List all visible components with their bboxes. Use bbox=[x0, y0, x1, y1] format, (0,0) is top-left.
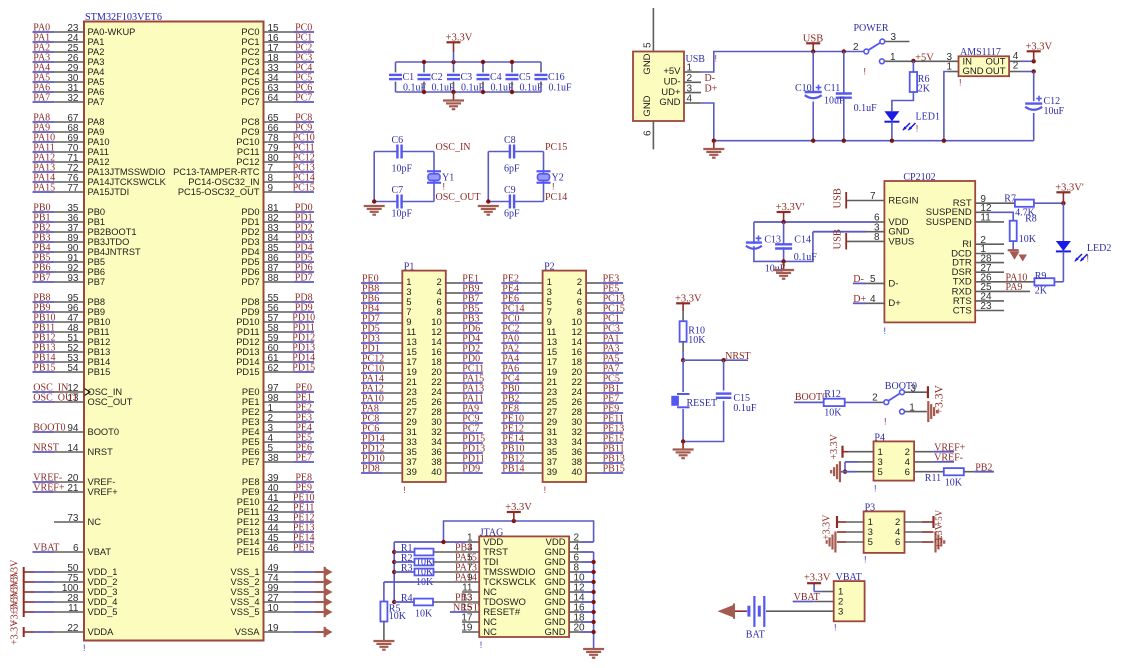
svg-text:!: ! bbox=[916, 124, 919, 134]
svg-text:BOOT0: BOOT0 bbox=[33, 423, 65, 434]
svg-text:STM32F103VET6: STM32F103VET6 bbox=[85, 12, 162, 23]
svg-text:VDD_2: VDD_2 bbox=[88, 577, 118, 587]
svg-text:PB6: PB6 bbox=[88, 267, 106, 277]
svg-text:PE1: PE1 bbox=[242, 397, 260, 407]
svg-text:PC15-OSC32_OUT: PC15-OSC32_OUT bbox=[178, 187, 260, 197]
svg-text:PC2: PC2 bbox=[241, 47, 259, 57]
svg-text:PB2BOOT1: PB2BOOT1 bbox=[88, 227, 137, 237]
svg-text:OUT: OUT bbox=[985, 66, 1005, 77]
svg-text:VBAT: VBAT bbox=[33, 543, 59, 554]
svg-text:0.1uF: 0.1uF bbox=[794, 252, 818, 263]
svg-text:+3.3V: +3.3V bbox=[822, 514, 833, 540]
svg-text:VSS_2: VSS_2 bbox=[231, 577, 260, 587]
svg-text:PD12: PD12 bbox=[236, 337, 259, 347]
svg-text:PA1: PA1 bbox=[88, 37, 105, 47]
svg-text:+3.3V: +3.3V bbox=[934, 522, 945, 548]
svg-text:PC1: PC1 bbox=[241, 37, 259, 47]
svg-text:+3.3V: +3.3V bbox=[829, 433, 840, 459]
svg-text:PA15JTDI: PA15JTDI bbox=[88, 187, 130, 197]
svg-text:SUSPEND: SUSPEND bbox=[926, 217, 972, 228]
svg-text:PB2: PB2 bbox=[975, 462, 992, 473]
svg-text:VDD_3: VDD_3 bbox=[88, 587, 118, 597]
svg-text:PD7: PD7 bbox=[241, 277, 259, 287]
svg-text:NC: NC bbox=[88, 517, 102, 527]
svg-text:6pF: 6pF bbox=[504, 163, 520, 174]
svg-text:PA12: PA12 bbox=[88, 157, 110, 167]
svg-text:PC12: PC12 bbox=[236, 157, 259, 167]
svg-text:!: ! bbox=[884, 417, 887, 427]
svg-text:PD9: PD9 bbox=[241, 307, 259, 317]
svg-text:!: ! bbox=[1087, 254, 1090, 264]
svg-text:PC4: PC4 bbox=[241, 67, 259, 77]
svg-text:+3.3V: +3.3V bbox=[934, 385, 946, 415]
svg-text:VSS_3: VSS_3 bbox=[231, 587, 260, 597]
svg-text:PD8: PD8 bbox=[241, 297, 259, 307]
svg-text:PA2: PA2 bbox=[88, 47, 105, 57]
svg-text:PE15: PE15 bbox=[237, 547, 260, 557]
svg-text:10K: 10K bbox=[415, 609, 433, 620]
svg-text:POWER: POWER bbox=[854, 23, 889, 34]
svg-text:VBAT: VBAT bbox=[836, 572, 862, 583]
svg-text:PA7: PA7 bbox=[33, 93, 50, 104]
svg-text:LED1: LED1 bbox=[916, 112, 940, 123]
svg-text:C9: C9 bbox=[504, 185, 516, 196]
svg-text:D+: D+ bbox=[853, 294, 866, 305]
svg-text:PC10: PC10 bbox=[236, 137, 259, 147]
svg-text:USB: USB bbox=[833, 188, 844, 208]
svg-text:PA9: PA9 bbox=[88, 127, 105, 137]
svg-text:VDD_5: VDD_5 bbox=[88, 607, 118, 617]
svg-text:PD5: PD5 bbox=[241, 257, 259, 267]
svg-text:PC6: PC6 bbox=[241, 87, 259, 97]
svg-text:PC14: PC14 bbox=[545, 192, 567, 203]
svg-text:PC13-TAMPER-RTC: PC13-TAMPER-RTC bbox=[173, 167, 260, 177]
svg-text:VDD_4: VDD_4 bbox=[88, 597, 118, 607]
svg-text:!: ! bbox=[874, 484, 877, 494]
svg-text:3: 3 bbox=[838, 606, 843, 617]
svg-text:10K: 10K bbox=[389, 611, 407, 622]
svg-text:40: 40 bbox=[572, 467, 583, 478]
svg-text:PB3JTDO: PB3JTDO bbox=[88, 237, 130, 247]
svg-text:PB12: PB12 bbox=[88, 337, 111, 347]
svg-text:!: ! bbox=[715, 54, 718, 64]
svg-text:!: ! bbox=[834, 623, 837, 633]
svg-text:PE12: PE12 bbox=[237, 517, 260, 527]
svg-text:PA11: PA11 bbox=[88, 147, 109, 157]
svg-text:10pF: 10pF bbox=[392, 163, 413, 174]
svg-text:!: ! bbox=[544, 485, 547, 495]
svg-text:!: ! bbox=[83, 643, 86, 653]
svg-text:VREF+: VREF+ bbox=[88, 487, 118, 497]
svg-text:PD3: PD3 bbox=[241, 237, 259, 247]
svg-text:NRST: NRST bbox=[33, 443, 59, 454]
svg-text:0.1uF: 0.1uF bbox=[733, 403, 757, 414]
svg-text:PB10: PB10 bbox=[88, 317, 111, 327]
svg-text:VREF-: VREF- bbox=[88, 477, 116, 487]
svg-text:PB15: PB15 bbox=[33, 363, 55, 374]
svg-text:2K: 2K bbox=[918, 83, 931, 94]
svg-text:PB15: PB15 bbox=[88, 367, 111, 377]
svg-text:PA0-WKUP: PA0-WKUP bbox=[88, 27, 136, 37]
svg-text:PA9: PA9 bbox=[1006, 282, 1023, 293]
svg-text:D-: D- bbox=[888, 278, 898, 289]
svg-text:+3.3V: +3.3V bbox=[804, 573, 831, 584]
svg-text:PB9: PB9 bbox=[88, 307, 106, 317]
svg-text:C1: C1 bbox=[403, 72, 415, 83]
svg-text:PD15: PD15 bbox=[236, 367, 259, 377]
svg-text:D+: D+ bbox=[705, 83, 718, 94]
svg-text:PE2: PE2 bbox=[242, 407, 260, 417]
svg-text:USB: USB bbox=[833, 229, 844, 249]
svg-text:+5V: +5V bbox=[915, 52, 934, 63]
svg-text:C7: C7 bbox=[392, 185, 404, 196]
svg-text:7: 7 bbox=[870, 191, 876, 202]
svg-text:!: ! bbox=[443, 182, 446, 192]
svg-text:GND: GND bbox=[642, 95, 653, 116]
svg-text:R8: R8 bbox=[1025, 214, 1037, 225]
svg-text:PE11: PE11 bbox=[237, 507, 259, 517]
svg-text:5: 5 bbox=[643, 42, 654, 48]
svg-text:+3.3V: +3.3V bbox=[10, 619, 21, 645]
svg-text:PE7: PE7 bbox=[242, 457, 260, 467]
svg-text:39: 39 bbox=[406, 467, 417, 478]
svg-text:PD10: PD10 bbox=[236, 317, 259, 327]
svg-text:PC15: PC15 bbox=[545, 142, 567, 153]
svg-text:PA10: PA10 bbox=[88, 137, 110, 147]
svg-text:PE7: PE7 bbox=[295, 453, 312, 464]
svg-text:R12: R12 bbox=[824, 389, 841, 400]
svg-text:0.1uF: 0.1uF bbox=[549, 83, 573, 94]
svg-text:PC3: PC3 bbox=[241, 57, 259, 67]
svg-text:GND: GND bbox=[544, 627, 565, 638]
svg-text:PD8: PD8 bbox=[362, 464, 380, 475]
svg-text:PA8: PA8 bbox=[88, 117, 105, 127]
svg-text:PB11: PB11 bbox=[88, 327, 110, 337]
svg-text:NRST: NRST bbox=[453, 603, 479, 614]
svg-text:6: 6 bbox=[895, 537, 900, 548]
svg-text:PA4: PA4 bbox=[88, 67, 105, 77]
svg-text:10K: 10K bbox=[688, 335, 706, 346]
svg-text:PE8: PE8 bbox=[242, 477, 260, 487]
svg-text:VSS_4: VSS_4 bbox=[231, 597, 260, 607]
svg-text:RESET: RESET bbox=[687, 398, 718, 409]
svg-text:LED2: LED2 bbox=[1087, 243, 1111, 254]
svg-text:PC11: PC11 bbox=[237, 147, 260, 157]
svg-text:PA14: PA14 bbox=[455, 573, 477, 584]
svg-text:PB14: PB14 bbox=[502, 464, 524, 475]
svg-text:OSC_IN: OSC_IN bbox=[436, 142, 471, 153]
svg-text:PE10: PE10 bbox=[237, 497, 260, 507]
svg-text:D-: D- bbox=[853, 274, 864, 285]
svg-text:PB4JNTRST: PB4JNTRST bbox=[88, 247, 142, 257]
svg-text:40: 40 bbox=[431, 467, 442, 478]
svg-text:!: ! bbox=[864, 67, 867, 77]
svg-text:5: 5 bbox=[870, 274, 876, 285]
svg-text:PB1: PB1 bbox=[88, 217, 106, 227]
svg-text:C8: C8 bbox=[504, 135, 516, 146]
svg-text:REGIN: REGIN bbox=[888, 195, 918, 206]
svg-text:!: ! bbox=[480, 640, 483, 650]
svg-text:C2: C2 bbox=[431, 72, 443, 83]
svg-text:VBAT: VBAT bbox=[794, 592, 820, 603]
svg-text:OSC_OUT: OSC_OUT bbox=[33, 393, 78, 404]
svg-text:C11: C11 bbox=[824, 83, 840, 94]
svg-text:OSC_OUT: OSC_OUT bbox=[88, 397, 133, 407]
svg-text:OSC_OUT: OSC_OUT bbox=[436, 192, 481, 203]
svg-text:6pF: 6pF bbox=[504, 208, 520, 219]
svg-text:VREF-: VREF- bbox=[934, 453, 963, 464]
svg-text:PA13JTMSSWDIO: PA13JTMSSWDIO bbox=[88, 167, 166, 177]
svg-text:0.1uF: 0.1uF bbox=[520, 83, 544, 94]
svg-text:R7: R7 bbox=[1004, 194, 1016, 205]
svg-text:PE6: PE6 bbox=[242, 447, 260, 457]
svg-text:R11: R11 bbox=[925, 473, 941, 484]
svg-text:PD11: PD11 bbox=[237, 327, 260, 337]
svg-text:VSSA: VSSA bbox=[235, 627, 261, 637]
svg-text:PE0: PE0 bbox=[242, 387, 260, 397]
svg-text:C6: C6 bbox=[392, 135, 404, 146]
svg-text:CP2102: CP2102 bbox=[903, 172, 935, 183]
svg-text:PD6: PD6 bbox=[241, 267, 259, 277]
svg-text:PD0: PD0 bbox=[241, 207, 259, 217]
svg-text:PD1: PD1 bbox=[241, 217, 259, 227]
svg-text:C4: C4 bbox=[490, 72, 502, 83]
svg-text:PC8: PC8 bbox=[241, 117, 259, 127]
svg-text:P4: P4 bbox=[874, 432, 885, 443]
svg-text:NRST: NRST bbox=[88, 447, 114, 457]
svg-text:10K: 10K bbox=[824, 407, 842, 418]
svg-text:VBAT: VBAT bbox=[88, 547, 112, 557]
svg-text:PC5: PC5 bbox=[241, 77, 259, 87]
svg-text:PC14-OSC32_IN: PC14-OSC32_IN bbox=[188, 177, 259, 187]
svg-text:PC7: PC7 bbox=[241, 97, 259, 107]
svg-text:PE4: PE4 bbox=[242, 427, 260, 437]
svg-text:P2: P2 bbox=[544, 262, 555, 273]
svg-text:NRST: NRST bbox=[725, 351, 751, 362]
svg-text:PB7: PB7 bbox=[33, 273, 50, 284]
svg-text:PA3: PA3 bbox=[88, 57, 105, 67]
svg-text:PD15: PD15 bbox=[292, 363, 315, 374]
svg-text:PE13: PE13 bbox=[237, 527, 260, 537]
svg-text:2: 2 bbox=[872, 393, 878, 404]
svg-text:C10: C10 bbox=[795, 83, 812, 94]
svg-text:PB14: PB14 bbox=[88, 357, 111, 367]
svg-text:PA5: PA5 bbox=[88, 77, 105, 87]
svg-text:PB5: PB5 bbox=[88, 257, 106, 267]
svg-text:OSC_IN: OSC_IN bbox=[88, 387, 123, 397]
svg-text:PE15: PE15 bbox=[293, 543, 315, 554]
svg-text:PD9: PD9 bbox=[462, 464, 480, 475]
svg-text:PD13: PD13 bbox=[236, 347, 259, 357]
svg-text:VREF+: VREF+ bbox=[33, 483, 65, 494]
svg-text:!: ! bbox=[403, 485, 406, 495]
svg-text:P1: P1 bbox=[404, 262, 415, 273]
svg-text:BOOT0: BOOT0 bbox=[88, 427, 120, 437]
svg-text:PE3: PE3 bbox=[242, 417, 260, 427]
svg-text:5: 5 bbox=[868, 537, 873, 548]
svg-text:10pF: 10pF bbox=[392, 208, 413, 219]
svg-text:PD4: PD4 bbox=[241, 247, 259, 257]
svg-text:5: 5 bbox=[878, 467, 883, 478]
svg-text:PE5: PE5 bbox=[242, 437, 260, 447]
svg-text:4: 4 bbox=[870, 294, 876, 305]
svg-text:GND: GND bbox=[963, 66, 984, 77]
svg-text:UD+: UD+ bbox=[661, 87, 681, 98]
svg-text:PA14JTCKSWCLK: PA14JTCKSWCLK bbox=[88, 177, 167, 187]
svg-text:PE9: PE9 bbox=[242, 487, 260, 497]
svg-text:!: ! bbox=[552, 182, 555, 192]
svg-text:0.1uF: 0.1uF bbox=[854, 103, 878, 114]
svg-text:VSS_5: VSS_5 bbox=[231, 607, 260, 617]
svg-text:R9: R9 bbox=[1035, 271, 1047, 282]
svg-text:6: 6 bbox=[643, 130, 654, 136]
svg-text:10K: 10K bbox=[1019, 234, 1037, 245]
svg-text:PB7: PB7 bbox=[88, 277, 106, 287]
svg-text:D+: D+ bbox=[888, 298, 901, 309]
svg-text:NC: NC bbox=[483, 627, 497, 638]
svg-text:VBUS: VBUS bbox=[888, 236, 914, 247]
svg-text:!: ! bbox=[864, 555, 867, 565]
svg-text:GND: GND bbox=[659, 97, 680, 108]
svg-text:VDDA: VDDA bbox=[88, 627, 115, 637]
svg-text:BAT: BAT bbox=[746, 630, 765, 641]
svg-text:!: ! bbox=[884, 326, 887, 336]
svg-text:PD7: PD7 bbox=[295, 273, 313, 284]
svg-text:2: 2 bbox=[853, 42, 859, 53]
svg-text:8: 8 bbox=[874, 232, 880, 243]
svg-text:39: 39 bbox=[547, 467, 558, 478]
svg-text:PA15: PA15 bbox=[33, 183, 55, 194]
svg-text:R3: R3 bbox=[401, 563, 413, 574]
svg-text:C14: C14 bbox=[794, 234, 811, 245]
svg-text:10uF: 10uF bbox=[1044, 106, 1065, 117]
svg-text:10K: 10K bbox=[945, 478, 963, 489]
svg-text:PA7: PA7 bbox=[88, 97, 105, 107]
svg-text:PC9: PC9 bbox=[241, 127, 259, 137]
svg-text:CTS: CTS bbox=[953, 305, 972, 316]
svg-text:R4: R4 bbox=[401, 593, 413, 604]
svg-text:PC7: PC7 bbox=[295, 93, 312, 104]
svg-text:GND: GND bbox=[642, 53, 653, 74]
svg-text:PB8: PB8 bbox=[88, 297, 106, 307]
svg-text:P3: P3 bbox=[865, 502, 876, 513]
svg-text:PE14: PE14 bbox=[237, 537, 260, 547]
svg-text:2K: 2K bbox=[1035, 285, 1048, 296]
svg-text:C16: C16 bbox=[548, 72, 565, 83]
svg-text:6: 6 bbox=[905, 467, 910, 478]
svg-text:PC15: PC15 bbox=[293, 183, 315, 194]
svg-text:PA6: PA6 bbox=[88, 87, 105, 97]
svg-text:C5: C5 bbox=[519, 72, 531, 83]
svg-text:PB0: PB0 bbox=[88, 207, 106, 217]
svg-text:PC0: PC0 bbox=[241, 27, 259, 37]
svg-text:VSS_1: VSS_1 bbox=[231, 567, 260, 577]
svg-text:PD2: PD2 bbox=[241, 227, 259, 237]
svg-text:C3: C3 bbox=[461, 72, 473, 83]
svg-text:!: ! bbox=[959, 78, 962, 88]
svg-text:PB15: PB15 bbox=[603, 464, 625, 475]
svg-text:PD14: PD14 bbox=[236, 357, 259, 367]
svg-text:3: 3 bbox=[891, 32, 897, 43]
svg-text:VDD_1: VDD_1 bbox=[88, 567, 118, 577]
svg-text:10uF: 10uF bbox=[824, 96, 845, 107]
svg-text:PB13: PB13 bbox=[88, 347, 111, 357]
